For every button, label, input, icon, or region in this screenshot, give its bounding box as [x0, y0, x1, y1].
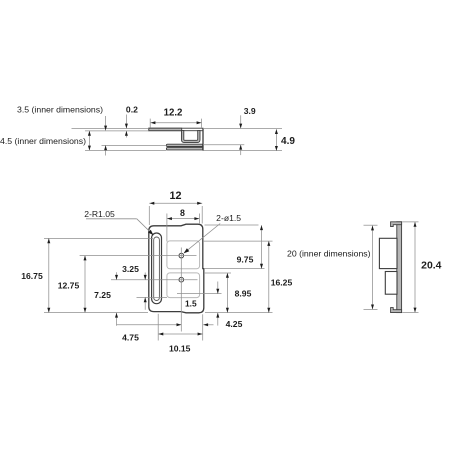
dimension 12: right arrow	[197, 202, 202, 205]
dimension 3.5 inner: lower leader	[105, 145, 107, 155]
centre line: hole 1 horizontal	[80, 255, 197, 257]
dimension 16.25: upper arrow	[267, 241, 270, 246]
svg-text:8: 8	[180, 208, 185, 218]
dimension 12.2: right extension	[201, 119, 203, 128]
extension line: plate bottom, left side	[44, 312, 148, 314]
dimension 7.25: lower arrow	[115, 313, 118, 318]
side view: upper tab box	[379, 238, 397, 268]
svg-text:4.25: 4.25	[226, 319, 243, 329]
label 2-o1.5: leader diagonal	[185, 224, 221, 253]
top view: top leaf (sheet cross-section)	[149, 128, 203, 131]
dimension 3.25: upper leader	[144, 273, 146, 280]
front view: hole 2 (lower)	[179, 277, 184, 282]
dimension 0.2: upper leader	[125, 115, 127, 129]
dimension 3.9: lower arrow	[239, 145, 242, 150]
dimension 20 inner: upper arrow	[371, 226, 374, 231]
dimension 12.75: lower arrow	[84, 308, 87, 313]
dimension 3.5 inner: upper leader	[105, 116, 107, 130]
dimension 8.95: upper arrow	[226, 273, 229, 278]
extension line: bottom surface, right	[203, 150, 282, 152]
dimension 3.9: upper leader	[240, 115, 242, 128]
extension line: plate right bottom (10.15 right)	[202, 314, 204, 340]
label 2-R1.05: leader underline	[86, 218, 137, 220]
dimension 4.5 inner: upper arrow	[88, 131, 91, 136]
svg-text:20 (inner dimensions): 20 (inner dimensions)	[287, 248, 371, 258]
side view: bottom lip with up tab	[391, 308, 402, 313]
dimension 10.15: left arrow	[159, 333, 164, 336]
extension line: top surface, right of part	[203, 128, 282, 130]
extension line: slot centre bottom (10.15 left)	[157, 314, 159, 341]
centre line: holes vertical	[180, 248, 182, 332]
extension line: right edge step	[204, 268, 265, 270]
dimension 10.15: right arrow	[198, 333, 203, 336]
dimension 4.75: left tail	[117, 324, 182, 326]
svg-text:2-ø1.5: 2-ø1.5	[216, 213, 241, 223]
dimension 4.25: upper arrow	[216, 289, 219, 294]
top view: inner leaf A	[166, 144, 202, 146]
dimension 4.9: line	[275, 129, 277, 151]
svg-text:3.9: 3.9	[244, 106, 256, 116]
svg-text:0.2: 0.2	[126, 104, 138, 114]
dimension 0.2: lower arrow	[125, 131, 128, 136]
dimension 8.95: lower arrow	[226, 308, 229, 313]
svg-text:12.2: 12.2	[164, 107, 183, 118]
dimension 20.4: upper arrow	[414, 222, 417, 227]
top view: inner leaf B	[166, 148, 202, 150]
dimension 16.25: line	[268, 241, 270, 313]
dimension 16.25: lower arrow	[267, 308, 270, 313]
front view: bend line rect lower tab	[167, 273, 200, 298]
dimension 3.25: lower arrow	[144, 297, 147, 302]
dimension 4.25: lower arrow	[216, 313, 219, 318]
dimension 12.75: upper arrow	[84, 256, 87, 261]
dimension 12: left extension	[148, 206, 150, 225]
dimension 12.75: line	[84, 256, 86, 313]
dimension 20 inner: lower tick	[364, 309, 378, 311]
dimension 7.25: upper arrow	[115, 275, 118, 280]
dimension 4.5 inner: lower arrow	[88, 146, 91, 151]
svg-text:12: 12	[169, 190, 181, 202]
dimension 8: right extension	[198, 214, 200, 225]
dimension 16.75: upper arrow	[47, 238, 50, 243]
svg-text:20.4: 20.4	[421, 260, 441, 271]
svg-text:4.5 (inner dimensions): 4.5 (inner dimensions)	[0, 136, 86, 146]
dimension 20.4: lower extension	[402, 312, 418, 314]
dimension 4.75: left arrow	[177, 323, 182, 326]
extension line: tab bottom (3.25 ref)	[137, 296, 168, 298]
dimension 12.2: right arrow	[197, 121, 202, 124]
label 2-o1.5: leader arrow	[184, 248, 190, 253]
dimension 9.75: lower arrow	[260, 264, 263, 269]
front view: hole 1 (upper)	[179, 253, 184, 258]
dimension 12.2: left extension	[149, 119, 151, 128]
dimension 20.4: lower arrow	[414, 308, 417, 313]
extension line: bottom surface, left	[85, 149, 166, 151]
dimension 12: left arrow	[150, 202, 155, 205]
dimension 12.2: line	[151, 122, 202, 124]
dimension 7.25: upper leader	[116, 272, 118, 279]
svg-text:4.75: 4.75	[122, 333, 139, 343]
svg-text:2-R1.05: 2-R1.05	[84, 209, 115, 219]
front view: slot inner contour	[154, 237, 160, 301]
dimension 3.25: lower leader	[144, 297, 146, 309]
dimension 4.75: right arrow	[203, 323, 208, 326]
top view: folded hook (U-shaped bend under top leaf)	[182, 130, 201, 142]
extension line: inner leaf top, right	[203, 144, 244, 146]
dimension 10.15: line	[158, 333, 202, 335]
svg-text:4.9: 4.9	[281, 136, 295, 147]
dimension 8: right arrow	[194, 217, 199, 220]
svg-text:9.75: 9.75	[237, 254, 254, 264]
svg-text:12.75: 12.75	[58, 281, 80, 291]
dimension 20.4: upper extension	[402, 221, 418, 223]
svg-text:16.75: 16.75	[21, 271, 43, 281]
side view: top lip with down tab	[391, 222, 402, 227]
extension line: top leaf bottom surface, left	[85, 130, 149, 132]
svg-text:1.5: 1.5	[185, 299, 197, 309]
dimension 3.5 inner: lower arrow	[104, 145, 107, 150]
side view: lower tab box	[385, 272, 397, 295]
dimension 4.25: upper leader	[217, 282, 219, 294]
dimension 3.5 inner: upper arrow	[104, 126, 107, 131]
top view: right wall (sheet edge line)	[202, 128, 204, 150]
front view: slot outer contour	[152, 233, 162, 304]
extension line: inner leaf A top, left	[102, 144, 167, 146]
svg-text:16.25: 16.25	[271, 277, 293, 287]
dimension 4.25: lower leader	[217, 313, 219, 326]
svg-text:7.25: 7.25	[94, 290, 111, 300]
dimension 0.2: lower leader	[125, 131, 127, 138]
svg-text:10.15: 10.15	[169, 344, 191, 354]
extension line: slot inner top (16.75 ref)	[44, 237, 153, 239]
dimension 12: right extension	[201, 206, 203, 224]
extension line: top surface, left of part	[72, 128, 149, 130]
dimension 20.4: line	[414, 222, 416, 312]
dimension 4.9: upper arrow	[275, 129, 278, 134]
dimension 16.75: line	[48, 238, 50, 312]
extension line: 1.5 feature line	[177, 293, 222, 295]
dimension 20 inner: line	[372, 226, 374, 310]
dimension 4.75: right tail	[203, 324, 213, 326]
dimension 0.2: upper arrow	[125, 124, 128, 129]
dimension 3.25: upper arrow	[144, 275, 147, 280]
svg-text:8.95: 8.95	[235, 289, 252, 299]
dimension 16.75: lower arrow	[47, 308, 50, 313]
dimension 8: left extension	[166, 214, 168, 242]
svg-text:3.5 (inner dimensions): 3.5 (inner dimensions)	[17, 105, 103, 115]
side view: vertical strip (sheet cross-section)	[397, 222, 402, 313]
dimension 8: left arrow	[167, 217, 172, 220]
extension line: plate top, right side	[205, 224, 259, 226]
label 2-R1.05: leader arrow	[148, 230, 153, 235]
dimension 3.9: lower leader	[240, 145, 242, 155]
front view: bend line rect upper tab	[167, 241, 200, 269]
dimension 12: line	[149, 202, 202, 204]
extension line: lower tab top, right side	[204, 272, 231, 274]
svg-text:3.25: 3.25	[122, 264, 139, 274]
extension line: plate bottom, right side	[205, 312, 273, 314]
dimension 3.9: upper arrow	[239, 124, 242, 129]
dimension 12.2: left arrow	[151, 121, 156, 124]
extension line: upper tab top, right side	[203, 240, 273, 242]
dimension 4.9: lower arrow	[275, 146, 278, 151]
dimension 8: line	[167, 218, 200, 220]
dimension 8.95: line	[226, 273, 228, 313]
centre line: hole 2 horizontal	[111, 279, 198, 281]
dimension 20 inner: upper tick	[364, 224, 378, 226]
dimension 4.5 inner: line	[88, 131, 90, 151]
dimension 7.25: lower leader	[116, 313, 118, 326]
dimension 9.75: upper arrow	[260, 225, 263, 230]
dimension 9.75: line	[261, 225, 263, 268]
label 2-R1.05: leader diagonal	[137, 219, 153, 235]
front view: plate outline	[149, 224, 204, 313]
dimension 20 inner: lower arrow	[371, 305, 374, 310]
